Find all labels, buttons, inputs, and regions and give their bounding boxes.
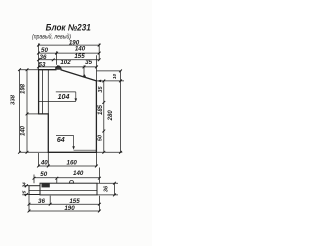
svg-text:140: 140 bbox=[75, 46, 86, 53]
svg-text:36: 36 bbox=[40, 54, 47, 61]
svg-text:198: 198 bbox=[20, 83, 26, 94]
svg-text:50: 50 bbox=[40, 171, 47, 178]
svg-text:40: 40 bbox=[40, 160, 48, 167]
svg-text:53: 53 bbox=[39, 61, 46, 68]
svg-text:338: 338 bbox=[11, 94, 17, 105]
svg-text:64: 64 bbox=[57, 137, 65, 144]
svg-text:25: 25 bbox=[22, 190, 28, 197]
svg-text:10: 10 bbox=[112, 74, 118, 80]
svg-text:36: 36 bbox=[104, 185, 110, 192]
svg-text:185: 185 bbox=[98, 104, 104, 115]
svg-text:35: 35 bbox=[85, 59, 92, 66]
svg-text:24: 24 bbox=[22, 182, 28, 189]
svg-text:140: 140 bbox=[73, 170, 84, 177]
svg-text:160: 160 bbox=[67, 160, 78, 167]
svg-text:Блок №231: Блок №231 bbox=[46, 23, 91, 33]
svg-text:280: 280 bbox=[108, 110, 114, 122]
svg-text:155: 155 bbox=[74, 53, 85, 60]
svg-text:35: 35 bbox=[98, 86, 104, 93]
svg-text:(правый, левый): (правый, левый) bbox=[32, 33, 71, 40]
svg-text:50: 50 bbox=[41, 47, 48, 54]
svg-text:190: 190 bbox=[64, 205, 75, 212]
svg-text:50: 50 bbox=[98, 135, 104, 141]
svg-text:104: 104 bbox=[58, 94, 70, 101]
svg-text:140: 140 bbox=[21, 125, 27, 136]
svg-text:102: 102 bbox=[60, 59, 71, 66]
svg-text:36: 36 bbox=[38, 198, 45, 205]
